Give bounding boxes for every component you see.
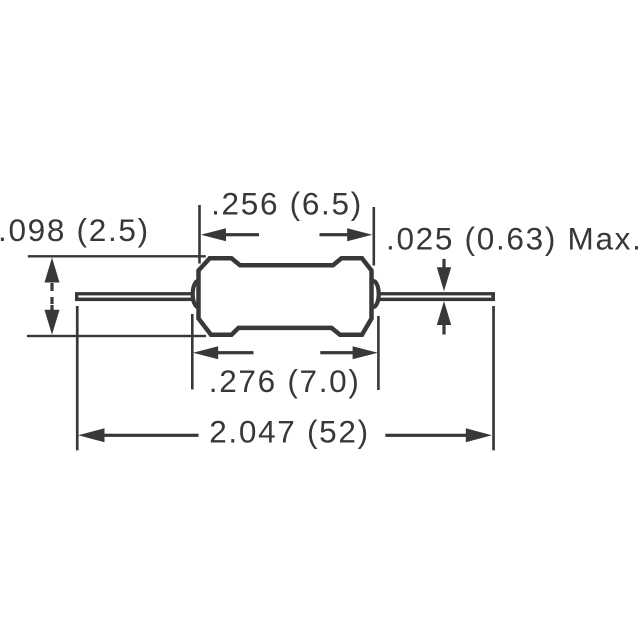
extension line bottom of .098 <box>27 335 206 337</box>
dimension line + left arrow of .276 <box>193 346 254 359</box>
dimension line + right arrow of .256 <box>320 228 373 241</box>
right lead <box>375 292 495 301</box>
svg-text:.098 (2.5): .098 (2.5) <box>0 212 150 248</box>
resistor body R <box>199 258 372 335</box>
svg-text:.025 (0.63) Max.: .025 (0.63) Max. <box>386 221 640 257</box>
extension line top of .098 <box>28 255 206 257</box>
left end bead <box>193 281 204 307</box>
extension line left of .276 <box>191 314 194 390</box>
extension line left of .256 <box>198 205 201 264</box>
extension line right of .256 <box>373 207 376 266</box>
svg-text:2.047 (52): 2.047 (52) <box>209 414 370 450</box>
svg-text:.276 (7.0): .276 (7.0) <box>209 363 361 399</box>
extension line left of 2.047 <box>76 306 79 450</box>
dashed shaft of .098 <box>50 283 53 311</box>
up arrow of .098 <box>45 258 60 283</box>
dimension line + left arrow of .256 <box>201 228 259 241</box>
upper arrow of .025 <box>437 259 451 291</box>
dimension line + left arrow of 2.047 <box>78 428 198 442</box>
down arrow of .098 <box>45 310 60 335</box>
svg-text:.256 (6.5): .256 (6.5) <box>211 186 363 222</box>
left lead <box>75 292 196 301</box>
lower arrow of .025 <box>437 301 451 335</box>
extension line right of 2.047 <box>492 306 495 450</box>
dimension line + right arrow of 2.047 <box>385 428 492 442</box>
extension line right of .276 <box>377 316 380 390</box>
dimension line + right arrow of .276 <box>320 346 378 359</box>
right end bead <box>368 281 379 307</box>
